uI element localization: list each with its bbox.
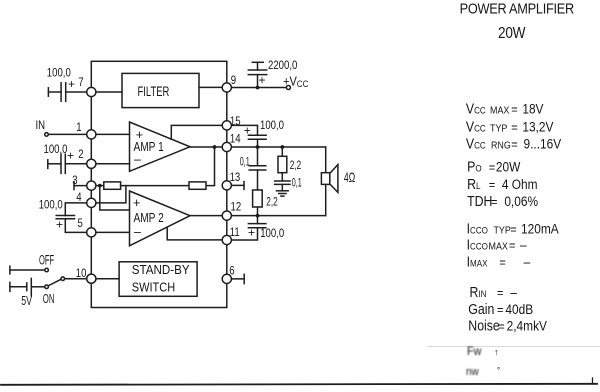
capacitor C2 100,0 — [248, 135, 266, 147]
faint divider line — [427, 346, 600, 348]
svg-text:2,2: 2,2 — [266, 196, 278, 209]
svg-text:3: 3 — [72, 174, 77, 187]
svg-text:ON: ON — [43, 292, 55, 307]
wire pin9 to +Vcc — [227, 87, 287, 89]
svg-text:100,0: 100,0 — [260, 227, 284, 240]
text labels group — [21, 59, 355, 309]
svg-text:7: 7 — [78, 76, 83, 89]
capacitor C4 0,1 — [275, 173, 290, 191]
svg-text:11: 11 — [230, 226, 240, 239]
pin 10 — [87, 274, 96, 283]
resistor R2 — [189, 182, 206, 189]
FILTER block — [122, 73, 199, 107]
svg-text:14: 14 — [230, 132, 241, 145]
bottom border line — [1, 378, 597, 385]
svg-text:1: 1 — [76, 121, 81, 134]
wire FILTER to pin9 — [199, 86, 227, 88]
svg-text:Gain=40dB: Gain=40dB — [468, 301, 533, 317]
svg-text:↑: ↑ — [494, 347, 499, 357]
svg-text:2: 2 — [78, 148, 83, 161]
wire AMP2 output to pin12 — [190, 215, 227, 217]
switch SW1 ON contact and lever — [45, 277, 92, 289]
svg-text:Fw: Fw — [467, 346, 482, 359]
pin 3 — [87, 181, 96, 190]
svg-text:4: 4 — [76, 191, 81, 204]
watermark remnants — [466, 346, 500, 379]
node feedback junction — [213, 145, 217, 149]
svg-text:4Ω: 4Ω — [344, 171, 355, 185]
svg-text:nw: nw — [466, 367, 479, 379]
wire pin2 to AMP1 - input — [91, 163, 129, 165]
svg-text:STAND-BY: STAND-BY — [132, 263, 190, 277]
wire feedback riser — [206, 147, 215, 186]
wire pin3 stub terminal — [74, 182, 91, 190]
svg-text:OFF: OFF — [39, 253, 54, 268]
wire pin15 to C2 — [227, 125, 258, 135]
capacitor C6 100,0 input pin7 — [48, 83, 91, 102]
svg-text:100,0: 100,0 — [39, 198, 63, 211]
wire tap to AMP2 + input — [100, 186, 130, 210]
svg-text:+: + — [56, 218, 63, 232]
svg-text:10: 10 — [76, 267, 87, 280]
op-amp AMP 2 — [130, 191, 191, 246]
pin 7 — [87, 87, 96, 96]
resistor R3 2,2 — [253, 190, 263, 216]
capacitor C7 100,0 pin2 — [48, 154, 92, 173]
wire IN to pin1 — [48, 133, 91, 135]
svg-text:–: – — [134, 153, 141, 167]
pin 13 — [222, 181, 231, 190]
svg-text:2,2: 2,2 — [290, 159, 302, 172]
svg-text:+: + — [259, 73, 266, 87]
capacitor C3 0,1 — [249, 147, 266, 190]
svg-text:5V: 5V — [21, 294, 32, 308]
svg-text:+: + — [133, 196, 140, 210]
capacitor C5 100,0 — [227, 216, 266, 240]
wire pin14 rail to speaker — [227, 146, 326, 148]
wire pin1 to AMP1 + input — [91, 133, 129, 135]
svg-text:13: 13 — [230, 171, 241, 184]
pin 4 — [87, 198, 96, 207]
wire AMP1 output to pin14 — [190, 146, 227, 148]
svg-text:0,1: 0,1 — [292, 177, 302, 190]
svg-text:+: + — [248, 226, 255, 240]
svg-text:SWITCH: SWITCH — [132, 281, 175, 295]
pin 15 — [222, 121, 231, 130]
spec panel title POWER AMPLIFIER — [460, 0, 575, 42]
STAND-BY SWITCH block — [119, 262, 197, 297]
svg-text:–: – — [134, 225, 141, 239]
svg-text:100,0: 100,0 — [44, 143, 68, 156]
node zobel-right junction — [280, 145, 284, 149]
pin 2 — [87, 159, 96, 168]
capacitor C1 2200,0 — [248, 62, 266, 87]
pin 5 — [87, 228, 96, 237]
wire pin7 to FILTER — [91, 91, 122, 93]
pin 9 — [222, 83, 231, 92]
node zobel-left junction — [256, 145, 260, 149]
pin 12 — [222, 211, 231, 220]
terminal +Vcc — [286, 86, 290, 90]
svg-text:0,1: 0,1 — [240, 156, 250, 169]
capacitor C8 100,0 pin4-5 — [56, 203, 91, 233]
svg-text:°: ° — [497, 366, 500, 375]
node feedback tap junction — [98, 184, 102, 188]
IC U1 outline — [91, 61, 227, 307]
svg-text:FILTER: FILTER — [138, 84, 170, 99]
wire pin6 stub terminal — [227, 274, 244, 283]
svg-text:AMP 2: AMP 2 — [134, 211, 164, 225]
node Vcc cap junction — [256, 86, 260, 90]
wire AMP2 tap to pin11 — [167, 227, 227, 240]
op-amp AMP 1 — [130, 122, 191, 171]
svg-text:+: + — [67, 149, 74, 163]
svg-text:2200,0: 2200,0 — [268, 59, 297, 72]
terminal IN — [45, 133, 49, 137]
wire pin13 stub terminal — [227, 182, 244, 190]
resistor R4 2,2 — [278, 147, 287, 173]
wire AMP1 tap to pin15 — [171, 125, 227, 139]
pin 11 — [222, 235, 231, 244]
wire pin4 to R1-R2 junction — [91, 186, 126, 203]
svg-text:POWER AMPLIFIER: POWER AMPLIFIER — [460, 0, 575, 17]
svg-text:9: 9 — [231, 74, 236, 87]
svg-text:PO=20W: PO=20W — [467, 159, 521, 175]
svg-text:12: 12 — [231, 201, 242, 214]
svg-text:Noise=2,4mkV: Noise=2,4mkV — [468, 318, 547, 334]
pin 6 — [222, 274, 231, 283]
pin 1 — [87, 130, 96, 139]
svg-text:15: 15 — [230, 115, 241, 128]
speaker LS1 — [321, 147, 338, 216]
svg-text:+: + — [136, 128, 143, 142]
pin 14 — [222, 142, 231, 151]
ground — [277, 191, 289, 196]
svg-text:5: 5 — [78, 217, 83, 230]
svg-text:6: 6 — [229, 265, 234, 278]
wire R1 to R2 — [121, 185, 189, 187]
wire pin3 to R1 — [91, 185, 104, 187]
battery BT1 5V — [10, 278, 45, 296]
svg-text:20W: 20W — [498, 25, 525, 42]
switch SW1 OFF contact — [10, 266, 49, 274]
svg-text:100,0: 100,0 — [47, 67, 71, 80]
svg-text:IN: IN — [36, 119, 46, 132]
wire pin5 to AMP2 - input — [91, 231, 129, 233]
wire pin12 rail to speaker — [227, 215, 326, 217]
svg-text:+: + — [244, 124, 251, 138]
resistor R1 — [104, 182, 121, 189]
node speaker-cap junction — [256, 214, 260, 218]
wire pin10 to STAND-BY block — [91, 278, 119, 280]
svg-text:100,0: 100,0 — [260, 119, 284, 132]
